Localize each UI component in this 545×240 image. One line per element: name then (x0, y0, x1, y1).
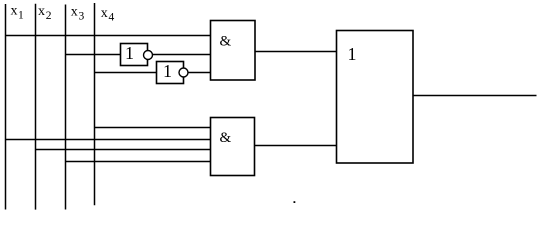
svg-text:x2: x2 (38, 4, 52, 22)
svg-text:1: 1 (163, 61, 172, 81)
svg-text:x4: x4 (101, 6, 115, 23)
svg-text:x3: x3 (71, 4, 85, 22)
svg-text:&: & (220, 130, 232, 146)
svg-text:1: 1 (348, 44, 357, 64)
svg-text:&: & (220, 34, 232, 50)
svg-text:x1: x1 (11, 4, 25, 22)
svg-text:1: 1 (125, 43, 134, 63)
